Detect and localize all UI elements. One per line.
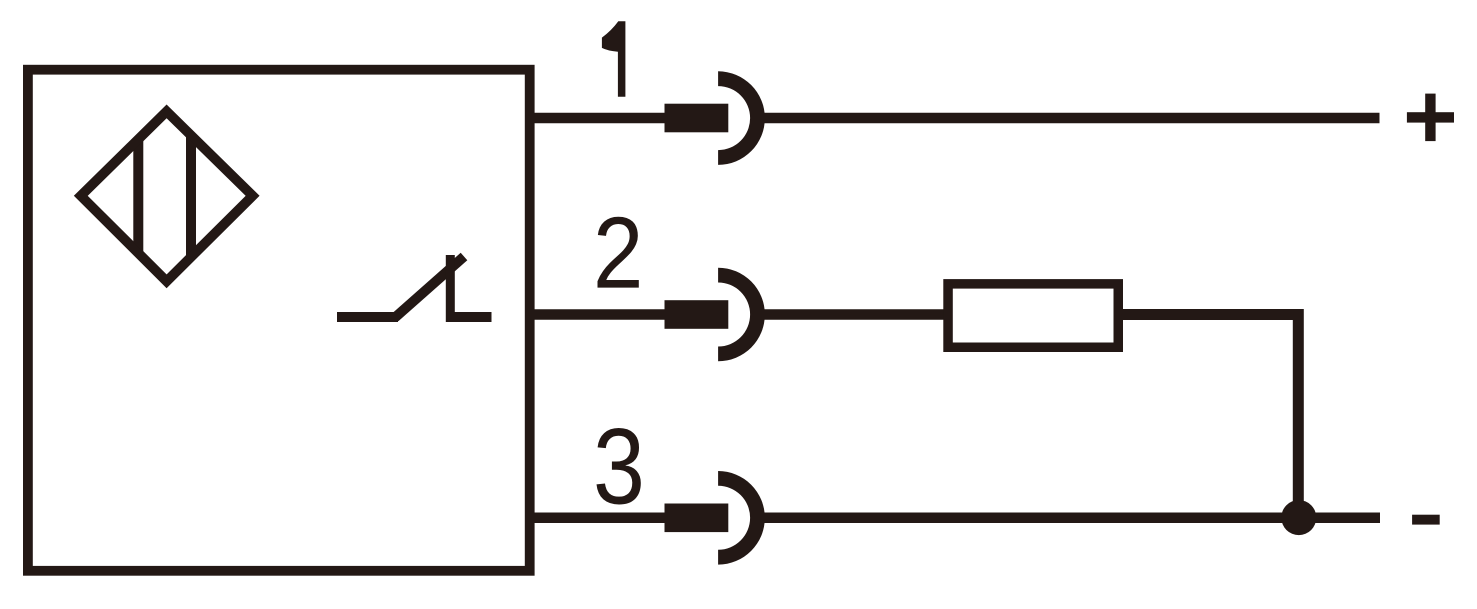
switching characteristic symbol: right baseline <box>450 312 492 322</box>
switching characteristic symbol: ramp diagonal <box>395 257 464 318</box>
pin 3 label <box>596 428 640 505</box>
connector pin 1 female socket arc <box>718 71 765 165</box>
+ supply terminal <box>1407 94 1454 142</box>
connector pin 2 male tab <box>665 300 729 329</box>
wire: pin 1 lead from sensor <box>530 113 728 124</box>
connector pin 3 female socket arc <box>718 471 765 565</box>
wire: pin 3 to - supply <box>765 513 1381 524</box>
connector pin 3 male tab <box>665 504 729 533</box>
connector pin 1 male tab <box>665 104 729 133</box>
pin 1 label <box>602 21 626 97</box>
wire: pin 2 to load <box>765 309 947 320</box>
sensor body outline <box>28 70 530 571</box>
switching characteristic symbol: left baseline <box>337 312 398 322</box>
load resistor <box>948 284 1118 347</box>
wire: pin 2 lead from sensor <box>530 309 728 320</box>
junction node dot <box>1281 500 1316 535</box>
switching characteristic symbol: vertical drop <box>446 255 455 322</box>
connector pin 2 female socket arc <box>718 268 765 362</box>
wire: pin 1 to + supply <box>765 113 1380 124</box>
wire: load to negative rail (corner) <box>1122 315 1298 518</box>
diamond inner bar right <box>186 118 196 274</box>
proximity sensor symbol: diamond outline <box>81 111 253 281</box>
wire: pin 3 lead from sensor <box>530 513 728 524</box>
pin 2 label <box>598 217 639 288</box>
- supply terminal <box>1412 515 1440 525</box>
